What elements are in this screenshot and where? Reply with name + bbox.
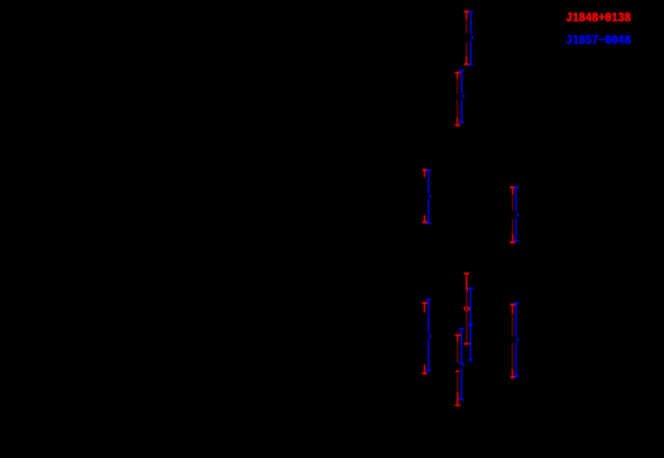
- error bar pair 7 red (lower right): [510, 305, 515, 378]
- error bar pair 7 blue: [514, 303, 519, 376]
- error bar pair 1 blue (top, J1857-0048): [469, 12, 473, 65]
- error bar pair 6 red (lower left): [422, 303, 427, 374]
- svg-text:J1848+0138: J1848+0138: [566, 10, 631, 26]
- legend label J1857-0048 (blue): [566, 33, 632, 49]
- error bar pair 2 blue: [459, 71, 464, 123]
- error bar pair 6 blue: [426, 300, 431, 371]
- svg-text:J1857−0048: J1857−0048: [566, 33, 631, 49]
- error bar pair 8 red (bottom center, with tick marker): [455, 335, 460, 405]
- error bar pair 4 blue: [514, 187, 519, 241]
- legend label J1848+0138 (red): [566, 10, 632, 26]
- error bar pair 8 blue (with arrow marker): [459, 329, 464, 399]
- error bar pair 4 red (right middle): [510, 187, 515, 242]
- error bar pair 2 red: [455, 73, 460, 126]
- error bar pair 3 red (left middle): [422, 170, 427, 222]
- error bar pair 5 red (center, with open circle marker): [464, 273, 469, 343]
- error bar pair 1 red (top, J1848+0138): [464, 12, 469, 65]
- error bar pair 3 blue: [426, 170, 431, 223]
- error bar pair 5 blue (with filled circle marker): [468, 288, 473, 360]
